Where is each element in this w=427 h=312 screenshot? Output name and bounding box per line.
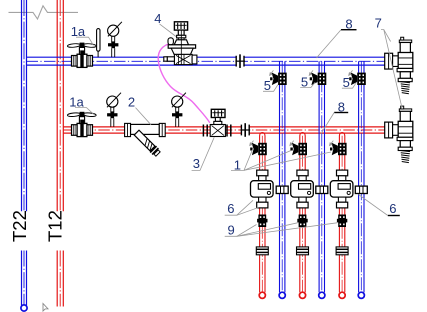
- valve 9, riser 1: [258, 215, 266, 228]
- radiator valve 1 on red riser 2: [298, 143, 307, 155]
- break line (top-left boundary): [9, 6, 79, 19]
- supply main (red horizontal pipe): [63, 127, 384, 133]
- pipe T22 bottom cap: [21, 305, 27, 311]
- air vent assembly 7 (supply end): [385, 37, 413, 94]
- union coupling on blue riser 2: [316, 186, 328, 193]
- svg-text:9: 9: [228, 223, 235, 238]
- blue riser 3 bottom cap: [358, 292, 364, 298]
- svg-text:6: 6: [227, 201, 234, 216]
- blue riser 2: [319, 61, 324, 292]
- union coupling (supply): [236, 56, 244, 67]
- pipe T12 lower segment: [57, 251, 63, 307]
- supply main (blue horizontal pipe): [27, 57, 385, 65]
- blue riser 1: [280, 61, 285, 292]
- union nut above meter, riser 1: [257, 170, 268, 181]
- svg-text:5: 5: [264, 78, 271, 93]
- pressure gauge (return, left): [107, 93, 121, 127]
- vent valve 5 on blue riser 1: [278, 73, 287, 85]
- pipe T22 lower segment: [22, 251, 27, 306]
- pipe T22 (blue vertical main) upper segment: [22, 0, 27, 211]
- svg-text:2: 2: [128, 95, 135, 110]
- pipe T12 (red vertical main) upper segment: [57, 0, 63, 211]
- blue riser 1 bottom cap: [279, 292, 285, 298]
- svg-text:5: 5: [301, 74, 308, 89]
- union nut below meter, riser 2: [297, 197, 308, 208]
- blue riser 3: [359, 61, 364, 292]
- drain assembly 7 (return end): [385, 106, 413, 163]
- svg-text:1a: 1a: [71, 24, 86, 39]
- svg-text:3: 3: [193, 156, 200, 171]
- red riser 1 bottom cap: [259, 292, 265, 298]
- pressure gauge (supply): [108, 22, 122, 57]
- pressure gauge (return, right): [172, 93, 186, 127]
- red riser 3 bottom cap: [339, 292, 345, 298]
- coupling on red riser 1: [256, 247, 268, 255]
- thermometer (supply): [97, 29, 100, 58]
- vent valve 5 on blue riser 3: [357, 73, 366, 85]
- vent valve 5 on blue riser 2: [318, 73, 327, 85]
- balancing valve 4 (supply): [164, 22, 197, 65]
- heat meter 6, riser 1: [251, 181, 274, 197]
- red riser 1: [260, 133, 265, 293]
- svg-text:T12: T12: [45, 210, 66, 242]
- coupling on red riser 3: [336, 247, 348, 255]
- radiator valve 1 on red riser 1: [258, 143, 267, 155]
- valve 9, riser 3: [338, 215, 346, 228]
- red riser 2: [300, 133, 305, 293]
- svg-text:T22: T22: [9, 210, 30, 242]
- union nut above meter, riser 2: [297, 170, 308, 181]
- heat meter 6, riser 3: [330, 181, 353, 197]
- union coupling on blue riser 3: [355, 186, 367, 193]
- red riser 2 bottom cap: [299, 292, 305, 298]
- ball valve 1a (return): [67, 112, 96, 136]
- valve 9, riser 2: [299, 215, 307, 228]
- capillary tube (impulse line, magenta): [158, 44, 210, 123]
- cursor arrow mark: [43, 304, 48, 312]
- union coupling on blue riser 1: [276, 186, 288, 193]
- radiator valve 1 on red riser 3: [338, 143, 347, 155]
- svg-text:4: 4: [154, 11, 161, 26]
- svg-text:6: 6: [389, 201, 396, 216]
- balancing valve 3 (return): [203, 109, 230, 136]
- union nut above meter, riser 3: [337, 170, 348, 181]
- blue riser 2 bottom cap: [319, 292, 325, 298]
- strainer 2 (return): [125, 123, 166, 157]
- coupling on red riser 2: [297, 247, 309, 255]
- ball valve 1a (supply): [67, 43, 96, 67]
- svg-text:5: 5: [343, 75, 350, 90]
- svg-text:7: 7: [375, 16, 382, 31]
- red riser 3: [339, 133, 344, 293]
- union nut below meter, riser 1: [257, 197, 268, 208]
- heat meter 6, riser 2: [291, 181, 314, 197]
- union nut below meter, riser 3: [337, 197, 348, 208]
- union coupling (return): [241, 125, 249, 136]
